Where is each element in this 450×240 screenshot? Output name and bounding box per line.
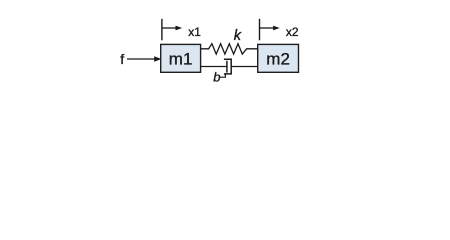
damper rod to m2	[231, 66, 258, 68]
svg-text:m1: m1	[169, 50, 193, 69]
damper rod from m1	[201, 66, 227, 68]
spring k between m1 and m2	[201, 44, 258, 54]
displacement reference x1	[162, 19, 182, 41]
damper cylinder cup	[224, 59, 231, 74]
damper piston plate	[226, 61, 228, 73]
svg-text:b: b	[213, 70, 220, 85]
force arrow into m1	[127, 56, 161, 61]
svg-text:k: k	[234, 28, 242, 44]
leader from b to cup	[220, 74, 226, 77]
svg-text:m2: m2	[266, 50, 290, 69]
mass m1 box	[161, 44, 201, 72]
svg-text:f: f	[120, 51, 124, 67]
svg-text:x2: x2	[286, 25, 299, 39]
svg-text:x1: x1	[188, 25, 201, 39]
displacement reference x2	[260, 19, 280, 41]
mass m2 box	[258, 44, 299, 72]
